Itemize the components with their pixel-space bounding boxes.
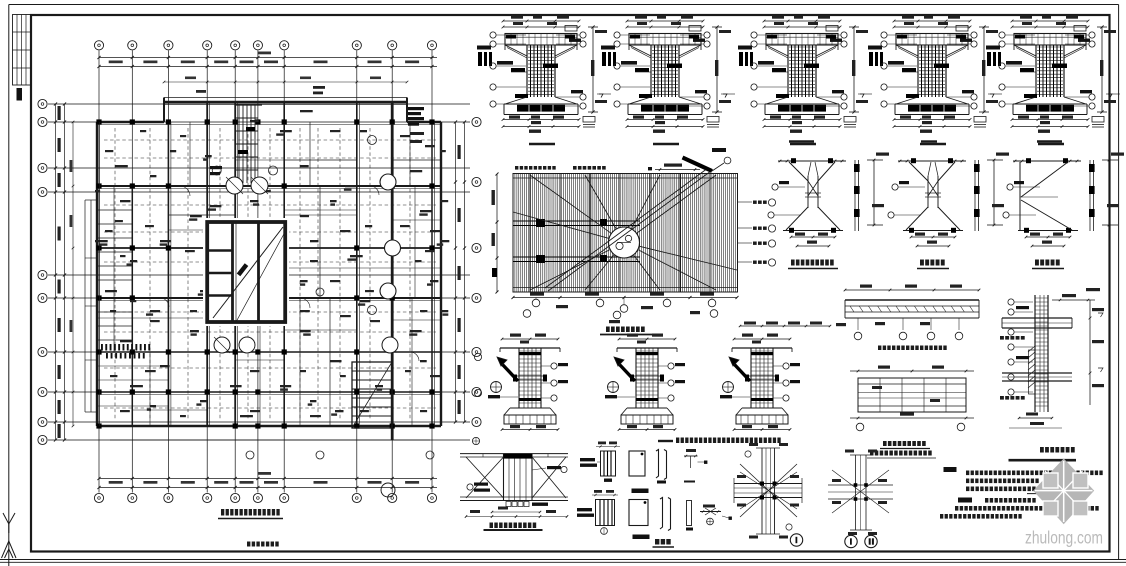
slab top annotations [515,164,700,171]
plan left balcony lines [85,200,97,412]
plain stirrup rect lower [629,500,650,540]
beam-column joint detail 1 [768,153,889,269]
column elevation detail 5 [986,16,1120,145]
plan extra partitions [97,122,441,426]
slab internal beam lines [513,219,640,263]
upper stair corridor [210,105,262,183]
beam-column joint detail 3 [1003,153,1124,269]
plan extra text scatter [95,120,448,417]
plan tick text cluster lower left [101,344,150,359]
general notes text block [940,467,1103,519]
lap splice mark upper [684,449,707,482]
foundation title label [1009,447,1077,460]
left margin fold arrow [2,513,17,558]
plan left axis bubbles [38,99,47,444]
plan horizontal axis lines [48,104,470,440]
plan leader bubbles interior [246,288,434,459]
plan dimension text scatter [95,110,449,417]
plan title label [218,509,283,547]
plan secondary wall lines [97,102,441,426]
beam detail labels [867,441,936,458]
cross joint plan small [828,450,893,536]
plan inner dim line above wing [163,77,409,84]
lower stair ladder [352,362,392,428]
column squares [96,119,434,428]
beam splice detail upper [844,285,981,351]
plan fixture circles right column [368,136,401,498]
slab left dimension line [492,173,499,294]
lap splice mark lower [700,505,732,525]
flag details left bubbles [472,353,481,444]
building outer wall bottom [97,426,441,440]
plan door arcs [160,186,419,361]
watermark pinwheel logo [1033,459,1094,525]
plan dashed reference lines [104,128,436,420]
column elevation detail 4 [868,16,1002,145]
beam splice detail lower [850,366,974,431]
left margin title table [13,15,32,86]
stirrup section four-leg upper [580,442,620,482]
plan vertical axis lines [99,51,432,493]
plan left dimension lines [54,102,66,441]
plan bottom axis bubbles [94,493,436,502]
svg-text:zhulong.com: zhulong.com [1025,528,1103,548]
plan top dimension lines [97,52,437,69]
beam-column joint detail 2 [888,153,1009,269]
building outer wall top wing [164,98,407,123]
interior wall rows [97,186,441,392]
plan room partitions middle [132,122,441,426]
stair core [203,218,289,326]
column elevation detail 2 [601,16,735,145]
big sample label [653,539,675,547]
slab formwork hatched panel [513,174,738,293]
slab center circle [609,227,640,258]
section label dashes above joints [789,140,1062,142]
plan left room partitions [97,186,168,406]
cross joint plan large [734,443,802,539]
tie bar hooks upper [656,450,667,484]
slab right leader notes [738,199,776,266]
watermark zhulong.com text [1025,528,1103,548]
left margin seal glyph [17,88,23,101]
column section detail with cut flag 2 [605,334,685,431]
plan top axis bubbles [94,41,436,50]
plan bottom dimension lines [97,472,437,489]
slab bottom dimensions [512,293,739,324]
column section detail with cut flag 3 [720,334,800,431]
plan inner dim line left of building [70,121,75,428]
column elevation detail 1 [477,16,611,145]
slab radiating diagonals [513,168,737,291]
slab cut thick bar [683,148,731,171]
column elevation detail 3 [738,16,872,145]
plan annotation above wing [196,86,325,94]
building outer wall right [440,122,442,426]
detail number bubbles [790,534,877,548]
flag detail3 extra dim row [739,322,846,328]
plan right axis bubbles [472,117,481,426]
tie bar hooks lower [660,498,693,531]
plan annotation stack right of wing [408,107,424,143]
building outer wall left [96,122,98,426]
plan fixture circles lower pair [214,337,255,353]
interior wall columns [132,102,432,440]
stirrup section four-leg lower [577,490,618,534]
beam column brace section left [0,0,568,530]
wall foundation section [1000,288,1104,428]
joint note label long [658,438,781,444]
column section detail with cut flag 1 [488,334,568,431]
slab title label [600,327,652,335]
plan fixture circles upper pair [212,166,277,194]
building outer wall upper [97,121,441,123]
plain stirrup rect upper [629,451,649,493]
plan right dimension lines [454,120,466,423]
